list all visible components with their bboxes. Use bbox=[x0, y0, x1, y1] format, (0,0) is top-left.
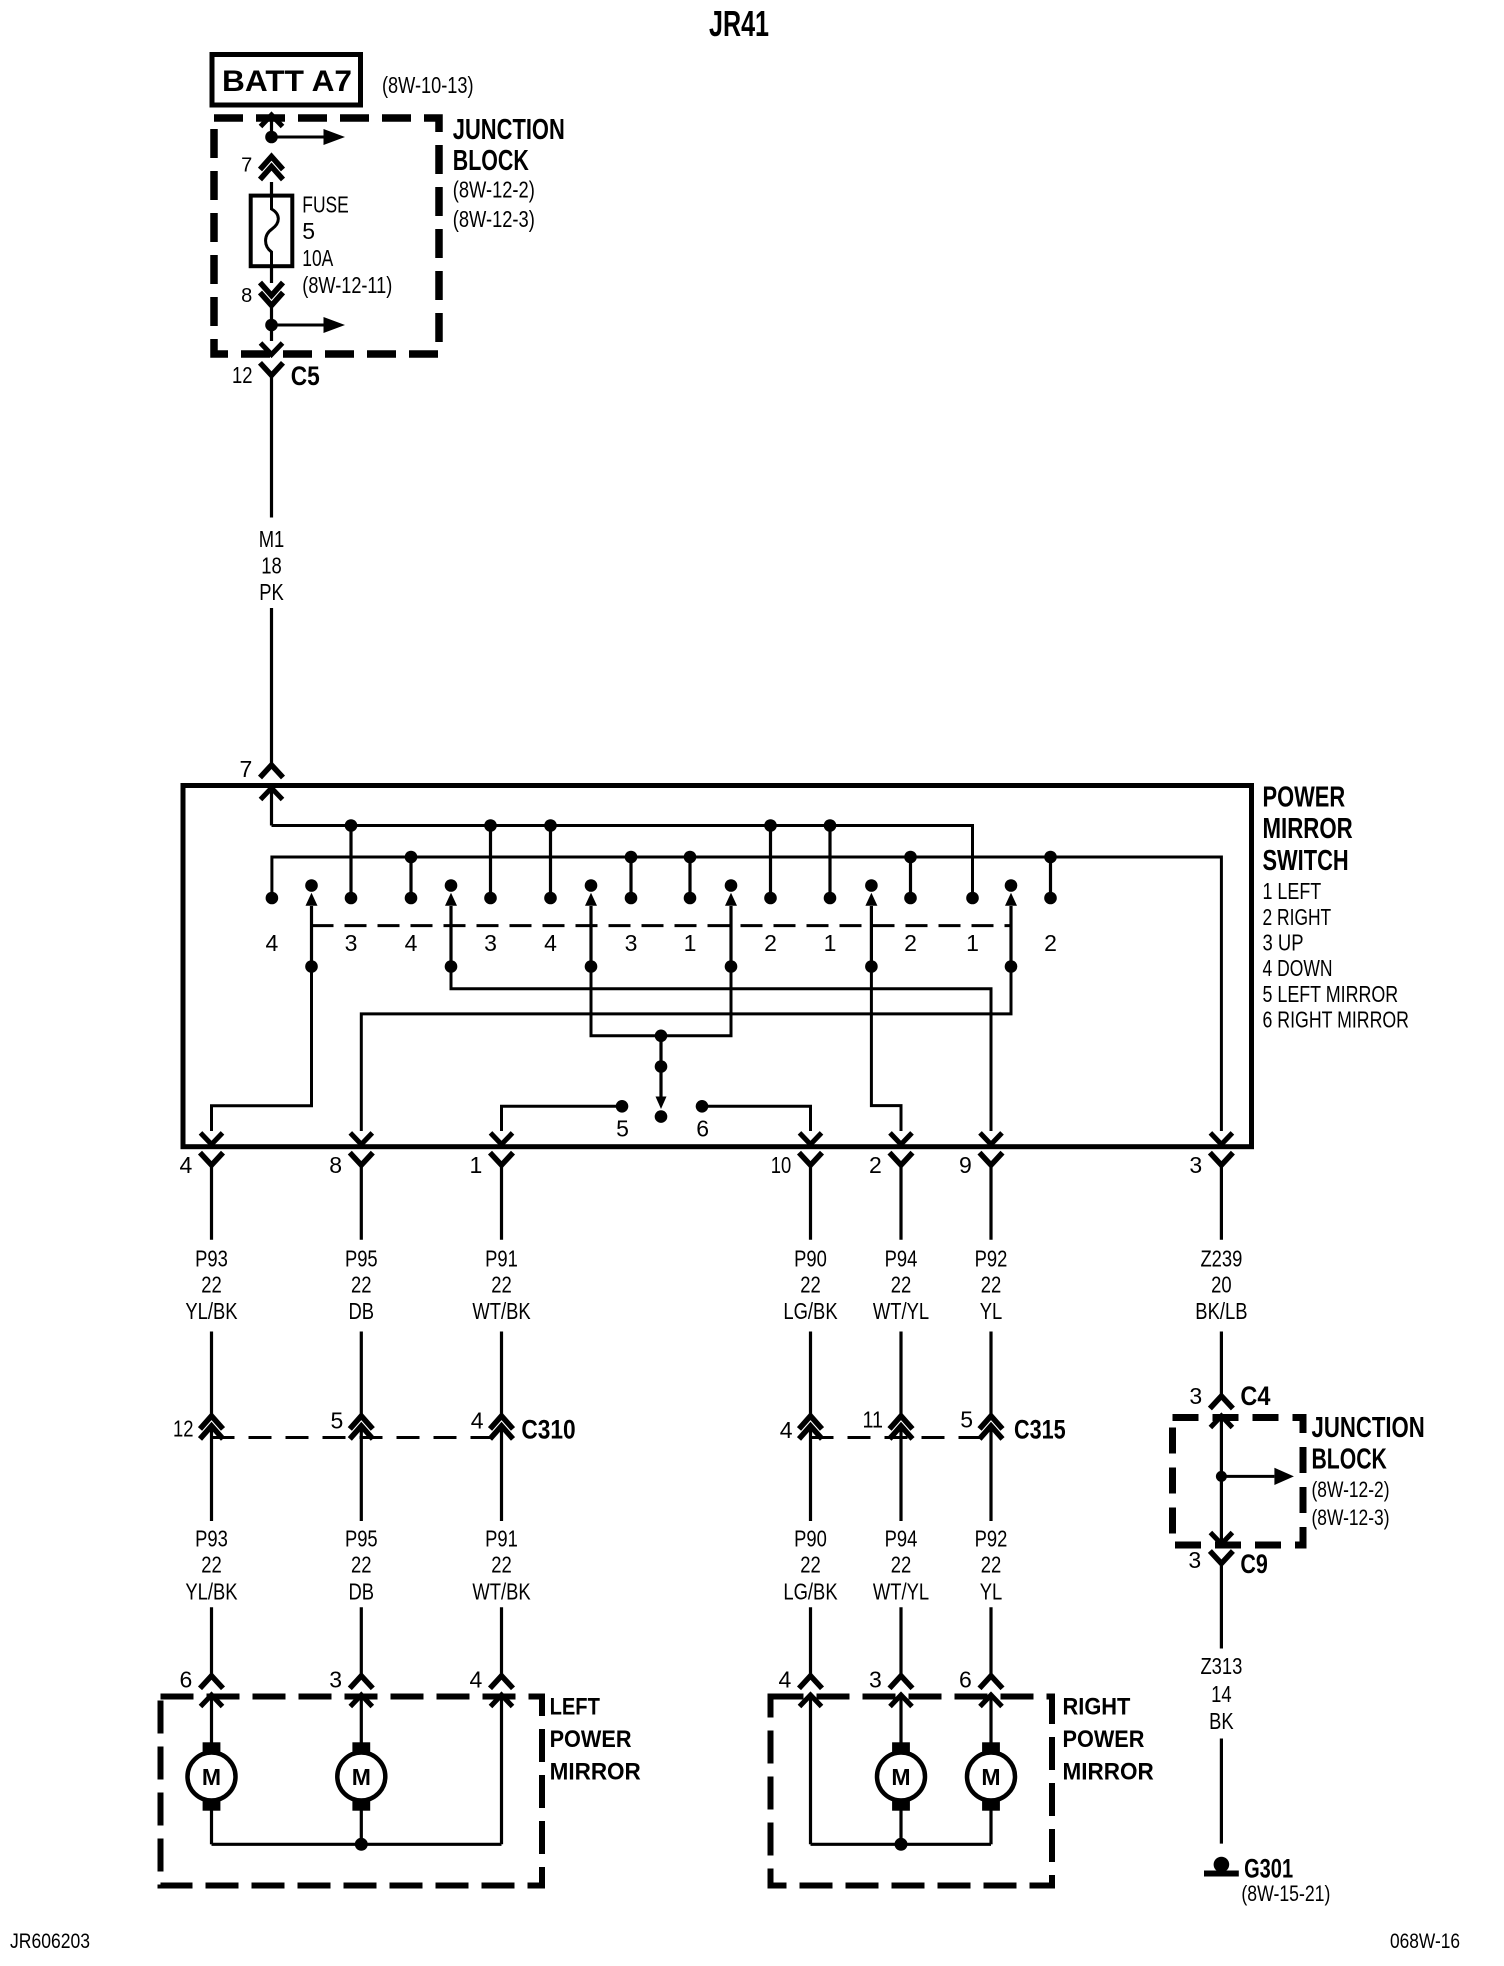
svg-text:BLOCK: BLOCK bbox=[453, 145, 529, 177]
switch mechanical link dashed line bbox=[312, 924, 1012, 927]
svg-text:RIGHT: RIGHT bbox=[1063, 1694, 1131, 1721]
wire P90 22 LG/BK (upper) bbox=[809, 1165, 812, 1240]
svg-text:22: 22 bbox=[491, 1272, 512, 1298]
svg-text:11: 11 bbox=[863, 1407, 884, 1433]
svg-text:22: 22 bbox=[800, 1552, 821, 1578]
svg-text:P90: P90 bbox=[794, 1245, 827, 1271]
wire P92 22 YL (lower) bbox=[989, 1429, 992, 1522]
svg-text:22: 22 bbox=[891, 1552, 912, 1578]
svg-text:2: 2 bbox=[1044, 930, 1057, 956]
left mirror pin 4 return leg bbox=[491, 1695, 513, 1707]
svg-text:G301: G301 bbox=[1244, 1854, 1293, 1884]
node wiper common junction bbox=[655, 1030, 668, 1043]
junction block 2 entry arrow bbox=[1210, 1416, 1232, 1428]
svg-text:1: 1 bbox=[966, 930, 979, 956]
wire P93 22 YL/BK (lower) bbox=[210, 1429, 213, 1522]
svg-text:3: 3 bbox=[484, 930, 497, 956]
svg-text:22: 22 bbox=[981, 1552, 1002, 1578]
svg-text:1: 1 bbox=[470, 1152, 483, 1178]
left mirror pin 6 entry bbox=[201, 1695, 223, 1707]
wire P95 22 DB (lower) bbox=[360, 1429, 363, 1522]
svg-text:P93: P93 bbox=[195, 1526, 228, 1552]
motor M right mirror left/right bbox=[982, 1742, 1000, 1753]
svg-text:4 DOWN: 4 DOWN bbox=[1263, 955, 1333, 981]
wire pin 8 down bbox=[270, 308, 273, 325]
svg-text:M: M bbox=[202, 1764, 221, 1790]
switch wiper 6 bbox=[1005, 879, 1018, 892]
svg-text:5: 5 bbox=[331, 1408, 344, 1434]
node battery feed junction bbox=[265, 131, 278, 144]
right mirror pin 4 return leg bbox=[800, 1695, 822, 1707]
right mirror pin 3 entry bbox=[890, 1695, 912, 1707]
svg-text:WT/BK: WT/BK bbox=[472, 1298, 531, 1324]
switch fixed contact 4 at x=271.9 bbox=[266, 892, 279, 905]
svg-text:6: 6 bbox=[959, 1667, 972, 1693]
svg-text:M: M bbox=[891, 1764, 910, 1790]
wire wiper3/wiper4 common bbox=[591, 967, 731, 1036]
svg-text:10A: 10A bbox=[302, 245, 333, 271]
svg-text:P92: P92 bbox=[975, 1245, 1008, 1271]
svg-text:JR606203: JR606203 bbox=[10, 1930, 90, 1953]
svg-text:BATT A7: BATT A7 bbox=[222, 65, 352, 98]
arrow feed to other circuits (top) bbox=[272, 136, 324, 139]
svg-text:JUNCTION: JUNCTION bbox=[453, 114, 565, 146]
svg-text:BK/LB: BK/LB bbox=[1195, 1298, 1247, 1324]
svg-text:P91: P91 bbox=[485, 1245, 518, 1271]
wire wiper2 to pin 9 bbox=[451, 967, 991, 1132]
svg-text:(8W-12-2): (8W-12-2) bbox=[1312, 1477, 1390, 1502]
svg-text:5 LEFT MIRROR: 5 LEFT MIRROR bbox=[1263, 981, 1399, 1007]
node junction block 2 bbox=[1216, 1471, 1227, 1482]
svg-text:22: 22 bbox=[201, 1552, 222, 1578]
svg-text:JUNCTION: JUNCTION bbox=[1312, 1412, 1425, 1444]
junction block 2 dashed box bbox=[1173, 1418, 1304, 1546]
svg-text:3: 3 bbox=[345, 930, 358, 956]
svg-text:4: 4 bbox=[544, 930, 557, 956]
svg-text:Z239: Z239 bbox=[1200, 1245, 1242, 1271]
svg-text:P93: P93 bbox=[195, 1245, 228, 1271]
svg-text:P90: P90 bbox=[794, 1526, 827, 1552]
svg-text:4: 4 bbox=[405, 930, 418, 956]
switch fixed contact 3 at x=490.5 bbox=[484, 819, 497, 832]
svg-text:YL: YL bbox=[980, 1298, 1003, 1324]
svg-text:(8W-12-3): (8W-12-3) bbox=[453, 206, 535, 232]
svg-text:4: 4 bbox=[779, 1667, 792, 1693]
svg-text:P95: P95 bbox=[345, 1526, 378, 1552]
svg-text:3: 3 bbox=[869, 1667, 882, 1693]
wire P92 22 YL (upper) bbox=[989, 1165, 992, 1240]
svg-text:JR41: JR41 bbox=[709, 3, 769, 44]
battery feed box BATT A7 bbox=[212, 55, 361, 106]
wire Z313 14 BK upper segment bbox=[1220, 1564, 1223, 1649]
svg-text:8: 8 bbox=[329, 1152, 342, 1178]
svg-text:14: 14 bbox=[1211, 1681, 1232, 1707]
svg-text:BLOCK: BLOCK bbox=[1312, 1443, 1387, 1475]
motor M left mirror left/right bbox=[352, 1742, 370, 1753]
switch fixed contact 4 at x=411.0 bbox=[405, 851, 418, 864]
wire wiper6 to pin 8 bbox=[361, 967, 1011, 1132]
svg-text:P92: P92 bbox=[975, 1526, 1008, 1552]
svg-text:C315: C315 bbox=[1014, 1415, 1066, 1445]
svg-text:6: 6 bbox=[696, 1116, 709, 1142]
svg-text:YL: YL bbox=[980, 1578, 1003, 1604]
svg-text:3: 3 bbox=[1188, 1547, 1201, 1573]
svg-text:MIRROR: MIRROR bbox=[550, 1759, 641, 1786]
wire P90 22 LG/BK (lower) bbox=[809, 1429, 812, 1522]
junction block 1 dashed box bbox=[214, 118, 439, 354]
svg-text:9: 9 bbox=[959, 1152, 972, 1178]
svg-text:22: 22 bbox=[981, 1272, 1002, 1298]
switch fixed contact 2 at x=910.5 bbox=[904, 851, 917, 864]
svg-text:BK: BK bbox=[1209, 1708, 1234, 1734]
svg-text:1: 1 bbox=[684, 930, 697, 956]
right power mirror dashed box bbox=[771, 1697, 1053, 1886]
svg-text:3: 3 bbox=[329, 1667, 342, 1693]
svg-text:3: 3 bbox=[625, 930, 638, 956]
svg-text:4: 4 bbox=[780, 1417, 793, 1443]
switch wiper 2 bbox=[445, 879, 458, 892]
svg-text:2: 2 bbox=[764, 930, 777, 956]
C315 dashed link bbox=[811, 1436, 992, 1439]
svg-text:P91: P91 bbox=[485, 1526, 518, 1552]
switch fixed contact 3 at x=631.0 bbox=[625, 851, 638, 864]
wire bus 1 (battery feed bus) bbox=[272, 826, 973, 899]
wire to connector C5 bbox=[270, 325, 273, 341]
svg-text:(8W-10-13): (8W-10-13) bbox=[382, 72, 474, 98]
svg-text:12: 12 bbox=[173, 1416, 194, 1442]
svg-text:10: 10 bbox=[771, 1152, 792, 1178]
wire P95 22 DB (upper) bbox=[360, 1165, 363, 1240]
svg-text:C4: C4 bbox=[1240, 1381, 1270, 1411]
svg-text:M1: M1 bbox=[259, 526, 285, 552]
svg-text:3 UP: 3 UP bbox=[1263, 929, 1304, 955]
node fused output junction bbox=[265, 319, 278, 332]
svg-text:MIRROR: MIRROR bbox=[1263, 813, 1353, 845]
svg-text:068W-16: 068W-16 bbox=[1390, 1930, 1460, 1953]
svg-text:20: 20 bbox=[1211, 1272, 1232, 1298]
wire wiper1 to pin 4 bbox=[212, 967, 312, 1132]
svg-text:4: 4 bbox=[471, 1408, 484, 1434]
wire P94 22 WT/YL (lower) bbox=[899, 1429, 902, 1522]
svg-text:POWER: POWER bbox=[1063, 1726, 1145, 1753]
wire wiper5 to pin 2 bbox=[871, 967, 901, 1132]
selector contact 6 bbox=[696, 1100, 709, 1113]
wire Z239 20 BK/LB (upper) bbox=[1220, 1165, 1223, 1240]
svg-text:M: M bbox=[981, 1764, 1000, 1790]
svg-text:6: 6 bbox=[180, 1667, 193, 1693]
wire P93 22 YL/BK (upper) bbox=[210, 1165, 213, 1240]
svg-text:P94: P94 bbox=[885, 1526, 918, 1552]
wire pin7 to fuse bbox=[270, 182, 273, 196]
svg-text:(8W-15-21): (8W-15-21) bbox=[1241, 1881, 1330, 1906]
right mirror pin 6 entry bbox=[980, 1695, 1002, 1707]
wire switch feed entry bbox=[261, 788, 283, 800]
switch fixed contact 3 at x=351.0 bbox=[345, 819, 358, 832]
svg-text:22: 22 bbox=[351, 1552, 372, 1578]
C310 dashed link bbox=[212, 1436, 502, 1439]
switch fixed contact 2 at x=770.5 bbox=[764, 819, 777, 832]
node selector pivot bbox=[655, 1110, 668, 1123]
svg-text:C5: C5 bbox=[291, 361, 320, 391]
fuse 5 10A bbox=[251, 196, 293, 267]
svg-text:YL/BK: YL/BK bbox=[185, 1298, 238, 1324]
svg-text:2: 2 bbox=[869, 1152, 882, 1178]
right mirror common bus bbox=[899, 1811, 902, 1845]
switch fixed contact 1 at x=690.0 bbox=[684, 851, 697, 864]
svg-text:(8W-12-3): (8W-12-3) bbox=[1312, 1505, 1390, 1530]
motor M left mirror up/down bbox=[203, 1742, 221, 1753]
svg-text:4: 4 bbox=[470, 1667, 483, 1693]
svg-text:LG/BK: LG/BK bbox=[783, 1578, 838, 1604]
svg-text:7: 7 bbox=[241, 155, 252, 177]
svg-text:22: 22 bbox=[201, 1272, 222, 1298]
svg-text:8: 8 bbox=[241, 285, 252, 307]
svg-text:5: 5 bbox=[960, 1407, 973, 1433]
svg-text:5: 5 bbox=[302, 218, 315, 244]
svg-text:P95: P95 bbox=[345, 1245, 378, 1271]
svg-text:LEFT: LEFT bbox=[550, 1694, 601, 1721]
switch wiper 1 bbox=[305, 879, 318, 892]
svg-text:C310: C310 bbox=[521, 1415, 575, 1445]
svg-text:22: 22 bbox=[891, 1272, 912, 1298]
svg-text:PK: PK bbox=[259, 579, 284, 605]
wire fuse to pin 8 bbox=[270, 266, 273, 283]
svg-text:22: 22 bbox=[800, 1272, 821, 1298]
svg-text:5: 5 bbox=[616, 1116, 629, 1142]
svg-text:3: 3 bbox=[1189, 1383, 1202, 1409]
ground G301 bbox=[1214, 1857, 1230, 1873]
wire P91 22 WT/BK (lower) bbox=[500, 1429, 503, 1522]
svg-text:7: 7 bbox=[240, 756, 253, 782]
mirror selector common leg bbox=[659, 1036, 662, 1067]
wire P94 22 WT/YL (upper) bbox=[899, 1165, 902, 1240]
arrow feed to other circuits (bottom) bbox=[272, 324, 324, 327]
wire M1 18 PK upper segment bbox=[270, 375, 273, 517]
svg-text:1 LEFT: 1 LEFT bbox=[1263, 878, 1322, 904]
switch fixed contact 2 at x=1050.5 bbox=[1044, 851, 1057, 864]
svg-text:(8W-12-11): (8W-12-11) bbox=[302, 272, 392, 298]
svg-text:DB: DB bbox=[349, 1578, 375, 1604]
switch wiper 4 bbox=[725, 879, 738, 892]
svg-text:4: 4 bbox=[180, 1152, 193, 1178]
svg-text:4: 4 bbox=[266, 930, 279, 956]
svg-text:(8W-12-2): (8W-12-2) bbox=[453, 177, 535, 203]
wire bus2 to pin 3 bbox=[1210, 1133, 1232, 1145]
wire contact 6 to pin 10 bbox=[702, 1106, 811, 1131]
wire bus 2 (return bus) bbox=[272, 857, 1222, 1131]
svg-text:22: 22 bbox=[491, 1552, 512, 1578]
svg-text:1: 1 bbox=[824, 930, 837, 956]
junction block 2 exit arrow bbox=[1220, 1476, 1223, 1544]
power mirror switch box bbox=[183, 786, 1252, 1147]
svg-text:POWER: POWER bbox=[1263, 781, 1346, 813]
selector contact 5 bbox=[616, 1100, 629, 1113]
arrow junction block 2 to other circuits bbox=[1221, 1475, 1274, 1478]
left mirror pin 3 entry bbox=[350, 1695, 372, 1707]
svg-text:Z313: Z313 bbox=[1200, 1653, 1242, 1679]
svg-text:12: 12 bbox=[232, 362, 253, 388]
wire M1 18 PK lower segment bbox=[270, 608, 273, 765]
svg-text:WT/BK: WT/BK bbox=[472, 1578, 531, 1604]
svg-text:6 RIGHT MIRROR: 6 RIGHT MIRROR bbox=[1263, 1007, 1410, 1033]
svg-text:WT/YL: WT/YL bbox=[873, 1578, 929, 1604]
left power mirror dashed box bbox=[161, 1697, 543, 1886]
svg-text:2 RIGHT: 2 RIGHT bbox=[1263, 904, 1332, 930]
node left mirror common junction bbox=[355, 1838, 368, 1851]
svg-text:C9: C9 bbox=[1240, 1549, 1268, 1579]
switch wiper 5 bbox=[865, 879, 878, 892]
switch fixed contact 1 at x=972.5 bbox=[966, 892, 979, 905]
motor M right mirror up/down bbox=[892, 1742, 910, 1753]
wire contact 5 to pin 1 bbox=[502, 1106, 623, 1131]
svg-text:WT/YL: WT/YL bbox=[873, 1298, 929, 1324]
svg-text:2: 2 bbox=[904, 930, 917, 956]
svg-text:LG/BK: LG/BK bbox=[783, 1298, 838, 1324]
svg-text:M: M bbox=[352, 1764, 371, 1790]
switch fixed contact 4 at x=550.5 bbox=[544, 819, 557, 832]
svg-text:18: 18 bbox=[261, 553, 282, 579]
node right mirror common junction bbox=[895, 1838, 908, 1851]
wire Z313 lower segment bbox=[1220, 1739, 1223, 1844]
svg-text:POWER: POWER bbox=[550, 1726, 632, 1753]
switch fixed contact 1 at x=830.0 bbox=[824, 819, 837, 832]
svg-text:P94: P94 bbox=[885, 1245, 918, 1271]
svg-text:SWITCH: SWITCH bbox=[1263, 845, 1349, 877]
svg-text:FUSE: FUSE bbox=[302, 192, 349, 218]
svg-text:22: 22 bbox=[351, 1272, 372, 1298]
svg-text:DB: DB bbox=[349, 1298, 375, 1324]
left mirror common bus bbox=[210, 1811, 213, 1845]
wire battery feed into junction block bbox=[261, 115, 283, 127]
svg-text:MIRROR: MIRROR bbox=[1063, 1759, 1154, 1786]
wire P91 22 WT/BK (upper) bbox=[500, 1165, 503, 1240]
svg-text:3: 3 bbox=[1189, 1152, 1202, 1178]
switch wiper 3 bbox=[585, 879, 598, 892]
svg-text:YL/BK: YL/BK bbox=[185, 1578, 238, 1604]
